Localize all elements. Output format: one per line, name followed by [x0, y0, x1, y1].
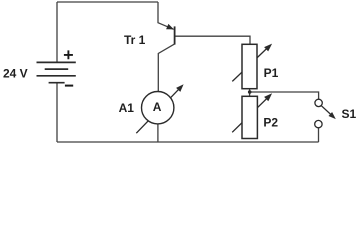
- svg-text:S1: S1: [342, 107, 357, 121]
- svg-text:P2: P2: [263, 115, 278, 129]
- svg-text:Tr 1: Tr 1: [124, 33, 146, 47]
- svg-text:A1: A1: [119, 101, 135, 115]
- svg-text:P1: P1: [264, 66, 279, 80]
- svg-text:24 V: 24 V: [3, 67, 28, 81]
- svg-text:A: A: [153, 100, 162, 114]
